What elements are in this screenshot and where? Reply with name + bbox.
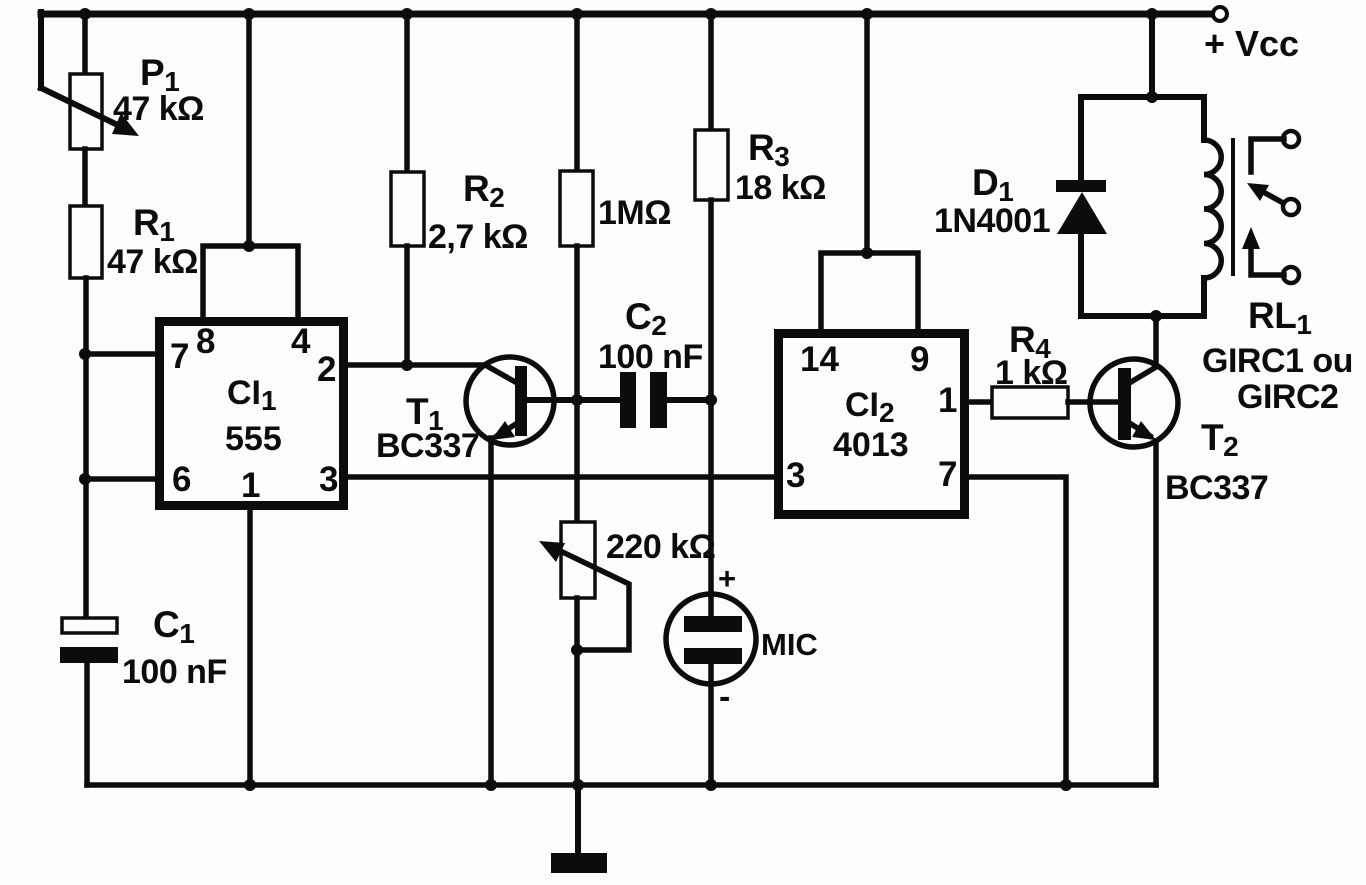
node: C2/R3/MIC bbox=[705, 394, 717, 406]
svg-text:4013: 4013 bbox=[833, 426, 909, 464]
svg-text:+ Vcc: + Vcc bbox=[1204, 23, 1299, 64]
resistor R3 bbox=[695, 130, 728, 200]
relay armature bbox=[1258, 189, 1285, 204]
node: rail/CI2 supply bbox=[861, 8, 873, 20]
svg-text:3: 3 bbox=[786, 456, 805, 495]
svg-text:2,7 kΩ: 2,7 kΩ bbox=[428, 218, 528, 256]
wire: coil branch upper bbox=[1201, 97, 1207, 140]
wire: relay/diode loop top bbox=[1081, 94, 1204, 100]
wire: R4 to T2 base bbox=[1068, 399, 1118, 405]
node: pin7 left bbox=[79, 348, 91, 360]
svg-text:6: 6 bbox=[172, 460, 191, 499]
svg-text:1: 1 bbox=[938, 381, 957, 420]
svg-text:100 nF: 100 nF bbox=[598, 338, 703, 376]
resistor R2 bbox=[391, 172, 424, 246]
wire: CI1 pins 8-4 bracket bbox=[203, 246, 298, 317]
wire: pin 2 to T1 collector bbox=[348, 362, 487, 368]
wire: T2 emitter down to ground rail bbox=[1153, 441, 1159, 785]
svg-text:100 nF: 100 nF bbox=[122, 653, 227, 691]
wire: bottom ground rail bbox=[87, 782, 1156, 788]
node: CI2 bracket bbox=[861, 247, 873, 259]
svg-text:9: 9 bbox=[910, 340, 929, 379]
wire: bottom contact lead bbox=[1251, 247, 1284, 275]
capacitor C1 bbox=[62, 618, 117, 633]
wire: pin 3 of CI1 to pin 3 of CI2 bbox=[348, 474, 774, 480]
potentiometer P1 body bbox=[70, 74, 102, 149]
wire: MIC to ground rail bbox=[708, 664, 714, 785]
relay contact terminal bottom bbox=[1283, 267, 1299, 283]
svg-text:14: 14 bbox=[800, 340, 839, 379]
wire: T1 base to C2 bbox=[527, 397, 620, 403]
wire: coil branch lower bbox=[1201, 278, 1207, 316]
node: R2/pin2 bbox=[401, 359, 413, 371]
node: rail/MIC bbox=[705, 779, 717, 791]
node: rail/P1 bbox=[79, 8, 91, 20]
wire: rail to CI1 supply bracket bbox=[246, 14, 252, 246]
svg-text:47 kΩ: 47 kΩ bbox=[113, 90, 204, 128]
svg-text:1: 1 bbox=[241, 466, 260, 505]
wire: top contact lead bbox=[1251, 139, 1284, 172]
resistor R1 bbox=[70, 206, 102, 278]
svg-text:GIRC1 ou: GIRC1 ou bbox=[1202, 342, 1353, 380]
node: rail/relay bbox=[1146, 8, 1158, 20]
transistor T1 BC337 bbox=[466, 357, 554, 445]
microphone MIC bbox=[666, 594, 756, 684]
transistor T2 BC337 bbox=[1090, 359, 1178, 447]
svg-text:2: 2 bbox=[317, 350, 336, 389]
wire: C1 to bottom rail bbox=[84, 663, 90, 785]
wire: pin 1 to ground rail bbox=[247, 510, 253, 785]
wire: pin 7 right and down to ground rail bbox=[969, 477, 1066, 785]
wire: rail to R2 bbox=[404, 14, 410, 172]
wire: R2 down to pin2 line bbox=[404, 246, 410, 365]
wire: rail to 1M resistor bbox=[574, 14, 580, 171]
svg-text:220 kΩ: 220 kΩ bbox=[606, 528, 715, 566]
svg-text:1N4001: 1N4001 bbox=[934, 202, 1050, 240]
node: rail/ground stem bbox=[572, 779, 584, 791]
wire: rail to CI2 supply bracket bbox=[864, 14, 870, 253]
IC CI2 4013 body bbox=[779, 334, 965, 515]
relay contact terminal middle bbox=[1283, 199, 1299, 215]
wire: C2 to R3/MIC node bbox=[667, 397, 711, 403]
wire: rail to R3 bbox=[708, 14, 714, 130]
svg-text:18 kΩ: 18 kΩ bbox=[735, 169, 826, 207]
wire: T1 emitter to ground rail bbox=[488, 438, 494, 785]
resistor R4 bbox=[992, 387, 1068, 418]
wire: CI2 pins 14-9 bracket bbox=[821, 253, 918, 329]
wire: node to MIC bbox=[708, 400, 714, 616]
wire: P1 to R1 bbox=[82, 149, 88, 206]
capacitor C2 bbox=[620, 372, 636, 428]
svg-text:GIRC2: GIRC2 bbox=[1237, 378, 1338, 416]
svg-text:3: 3 bbox=[319, 460, 338, 499]
node: rail/CI1 supply bbox=[243, 8, 255, 20]
Vcc terminal bbox=[1213, 7, 1227, 21]
svg-text:MIC: MIC bbox=[761, 627, 818, 662]
wire: diode branch lower bbox=[1078, 234, 1084, 316]
potentiometer 220k wiper arrow bbox=[552, 547, 629, 650]
node: rail/R3 bbox=[705, 8, 717, 20]
wire: rail drop to relay loop bbox=[1149, 14, 1155, 97]
wire: relay/diode loop bottom bbox=[1081, 313, 1204, 319]
svg-text:4: 4 bbox=[291, 322, 311, 361]
wire: diode branch upper bbox=[1078, 97, 1084, 181]
node: pot wiper tie bbox=[571, 644, 583, 656]
ground symbol bbox=[551, 853, 607, 873]
wire: 1M down to 220k pot bbox=[574, 246, 580, 522]
relay core bar bbox=[1231, 140, 1235, 274]
ground stem bbox=[575, 785, 581, 853]
relay contact terminal top bbox=[1283, 131, 1299, 147]
wire: pin 7 lead bbox=[85, 351, 155, 357]
wire: pin 1 to R4 bbox=[969, 399, 992, 405]
node: rail/R2 bbox=[401, 8, 413, 20]
svg-text:555: 555 bbox=[225, 420, 282, 458]
wire: R3 down to C2 node bbox=[708, 200, 714, 400]
node: rail/pin7 bbox=[1060, 779, 1072, 791]
resistor 1M body bbox=[560, 171, 593, 246]
svg-text:1MΩ: 1MΩ bbox=[598, 194, 671, 232]
diode D1 1N4001 bbox=[1056, 180, 1106, 192]
wire: pot to ground rail bbox=[574, 598, 580, 785]
node: rail/1M bbox=[571, 8, 583, 20]
node: rail/T1 emitter bbox=[485, 779, 497, 791]
svg-text:7: 7 bbox=[938, 455, 957, 494]
svg-text:+: + bbox=[718, 561, 736, 596]
wire: top +Vcc rail bbox=[41, 11, 1212, 18]
svg-text:47 kΩ: 47 kΩ bbox=[107, 243, 198, 281]
svg-text:-: - bbox=[719, 678, 730, 716]
wire: T2 collector up to relay bbox=[1153, 316, 1159, 366]
svg-text:7: 7 bbox=[170, 337, 189, 376]
svg-text:BC337: BC337 bbox=[1165, 469, 1268, 507]
node: pin6 left bbox=[79, 473, 91, 485]
svg-text:BC337: BC337 bbox=[376, 427, 479, 465]
node: 1M/T1 base bbox=[571, 394, 583, 406]
potentiometer P1 wiper arrow bbox=[41, 88, 128, 130]
IC CI1 555 body bbox=[160, 322, 344, 506]
wire: pin 6 lead bbox=[85, 476, 155, 482]
svg-text:1 kΩ: 1 kΩ bbox=[995, 354, 1068, 392]
node: CI1 bracket bbox=[243, 240, 255, 252]
node: rail/pin1 bbox=[244, 779, 256, 791]
relay RL1 coil bbox=[1204, 140, 1221, 278]
node: relay loop bottom bbox=[1150, 310, 1162, 322]
potentiometer 220k body bbox=[561, 522, 595, 598]
wire: rail to P1 bbox=[82, 14, 88, 74]
node: relay loop top bbox=[1146, 91, 1158, 103]
wire: left drop to P1 wiper bbox=[38, 12, 44, 88]
svg-text:8: 8 bbox=[196, 322, 215, 361]
wire: R1 down to C1 bbox=[83, 278, 89, 618]
